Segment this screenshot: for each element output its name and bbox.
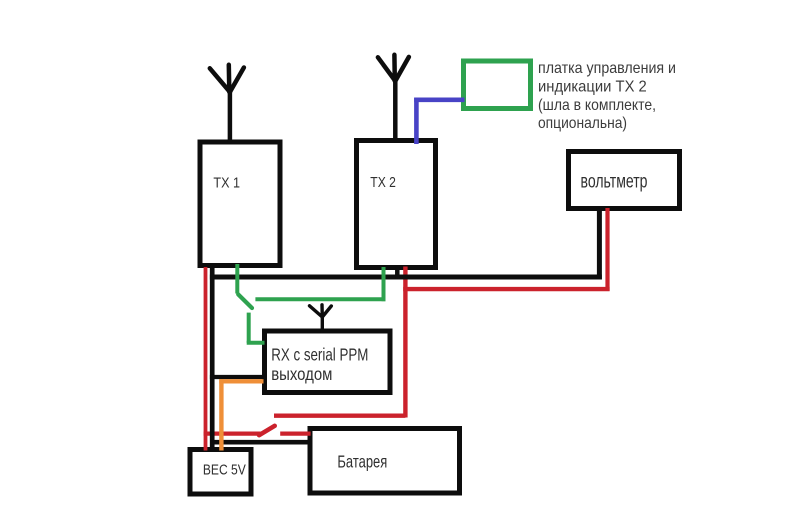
wire red horizontal to voltmeter (403, 287, 609, 291)
svg-text:опциональна): опциональна) (538, 115, 627, 132)
svg-text:выходом: выходом (271, 364, 332, 384)
label Батарея (337, 452, 387, 472)
label вольтметр (581, 172, 648, 193)
wire blue vertical into TX2 top (414, 98, 419, 144)
svg-text:(шла в комплекте,: (шла в комплекте, (538, 97, 656, 114)
wire black bottom horizontal to battery (210, 440, 311, 445)
svg-text:вольтметр: вольтметр (581, 172, 648, 193)
wire black bus horizontal (210, 275, 602, 280)
wire red vertical to voltmeter (605, 208, 609, 291)
box RX (265, 331, 391, 393)
svg-text:TX 2: TX 2 (370, 175, 396, 191)
box voltmeter (569, 152, 680, 209)
label RX c serial PPM / выходом (271, 345, 368, 384)
box battery (310, 429, 460, 494)
svg-text:платка управления и: платка управления и (538, 60, 676, 77)
wire black vertical TX1 to BEC (210, 267, 215, 450)
wire red horizontal to battery (280, 432, 310, 436)
wire red vertical TX1 to BEC (204, 267, 208, 451)
wire black stub TX2 bottom to bus (395, 267, 400, 279)
wire green vertical from TX1 bottom (235, 264, 239, 294)
wire blue horizontal into control board (414, 98, 464, 103)
wire black vertical to voltmeter (597, 209, 602, 280)
svg-text:Батарея: Батарея (337, 452, 387, 472)
wire green vertical to RX (247, 313, 251, 343)
label BEC 5V (203, 463, 246, 479)
switch green lever (open) (238, 294, 252, 308)
antenna RX (310, 305, 332, 332)
wire green vertical from TX2 bottom (382, 267, 386, 301)
svg-text:BEC 5V: BEC 5V (203, 463, 246, 479)
wire red horizontal BEC to switch (204, 432, 261, 436)
box control board (green) (464, 61, 531, 109)
svg-text:индикации TX 2: индикации TX 2 (538, 78, 647, 95)
box TX2 (357, 141, 436, 268)
antenna TX2 (378, 55, 409, 140)
wire green horizontal bus to TX2 (255, 297, 385, 301)
box TX1 (200, 142, 280, 266)
box BEC (190, 450, 251, 495)
svg-text:RX c serial PPM: RX c serial PPM (271, 345, 368, 365)
wire green horizontal into RX left (247, 341, 265, 345)
label TX 2 (370, 175, 396, 191)
wire black short horizontal to RX left (210, 375, 264, 379)
caption control board text (538, 60, 676, 132)
switch red lever (open) (259, 426, 275, 435)
antenna TX1 (210, 65, 244, 142)
wire orange horizontal from RX left (219, 379, 263, 383)
wire orange vertical to BEC (219, 379, 223, 450)
label TX 1 (213, 175, 240, 191)
wire red upper horizontal from switch to TX2 drop (274, 414, 405, 418)
svg-text:TX 1: TX 1 (213, 175, 240, 191)
wire red vertical from TX2 bottom (403, 267, 407, 418)
